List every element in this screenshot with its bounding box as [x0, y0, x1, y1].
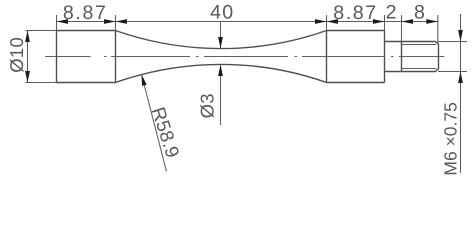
svg-text:Ø3: Ø3 — [197, 93, 218, 118]
svg-text:Ø10: Ø10 — [6, 37, 27, 73]
svg-text:2: 2 — [386, 2, 398, 24]
svg-text:8.87: 8.87 — [63, 2, 108, 24]
svg-text:M6 ×0.75: M6 ×0.75 — [441, 102, 461, 175]
svg-text:8: 8 — [414, 2, 426, 24]
svg-text:40: 40 — [210, 2, 234, 24]
svg-text:8.87: 8.87 — [333, 2, 378, 24]
